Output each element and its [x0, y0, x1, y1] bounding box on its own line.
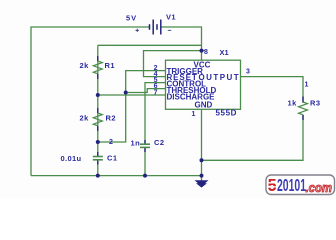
svg-text:7: 7: [154, 89, 158, 96]
svg-text:V1: V1: [166, 13, 176, 22]
svg-text:1k: 1k: [288, 99, 298, 108]
battery V1: [126, 13, 176, 35]
svg-text:555D: 555D: [216, 109, 238, 118]
ground: [195, 180, 209, 187]
svg-text:1: 1: [192, 111, 196, 118]
wire gnd pin down: [201, 109, 203, 180]
capacitor C1: [61, 152, 118, 165]
wire pin2 to node2: [98, 71, 166, 142]
svg-text:5V: 5V: [126, 14, 137, 23]
svg-text:20101: 20101: [277, 175, 306, 195]
svg-text:C2: C2: [154, 138, 164, 147]
svg-text:R3: R3: [310, 99, 320, 108]
svg-text:C1: C1: [107, 154, 117, 163]
wire C1 bottom lead: [97, 160, 99, 175]
svg-text:2k: 2k: [80, 61, 90, 70]
wire top-left loop: [31, 27, 150, 176]
svg-text:R1: R1: [105, 61, 115, 70]
wire pin6 tie: [126, 89, 166, 93]
svg-text:2k: 2k: [80, 113, 90, 122]
wire pin7 row: [98, 94, 166, 96]
svg-text:1n: 1n: [131, 138, 141, 147]
node R3-return: [200, 158, 204, 162]
node R1-R2 junction: [96, 93, 100, 97]
op-amp U1 : 555 timer box X1: [166, 48, 241, 118]
wire R column: [97, 45, 99, 156]
wire vcc rail to R1 top: [98, 44, 202, 46]
svg-text:3: 3: [246, 69, 250, 76]
svg-text:2: 2: [109, 139, 113, 146]
node C1-rail: [96, 174, 100, 178]
svg-text:1: 1: [305, 82, 309, 89]
svg-text:0.01u: 0.01u: [61, 154, 82, 163]
svg-text:8: 8: [204, 49, 208, 56]
resistor R3: [288, 97, 321, 121]
svg-text:X1: X1: [220, 48, 229, 57]
node A junction dots: [96, 49, 204, 178]
svg-text:R2: R2: [106, 113, 116, 122]
wire vcc to pin4 feed: [144, 51, 205, 77]
svg-text:.com: .com: [306, 181, 333, 195]
node C2-rail: [143, 174, 147, 178]
resistor R2: [80, 108, 116, 131]
capacitor C2: [131, 138, 165, 152]
node 2 junction: [96, 140, 100, 144]
wire battery right to vcc node: [161, 27, 202, 60]
node vcc-pin4: [200, 49, 204, 53]
svg-text:GND: GND: [195, 101, 213, 110]
wire C2 bottom lead: [144, 148, 146, 176]
node rail-gnd: [200, 174, 204, 178]
svg-text:5: 5: [268, 175, 277, 195]
logo watermark 520101.com: [266, 175, 335, 195]
node pin2-pin6 tie: [124, 91, 128, 95]
wire pin5 to C2: [145, 83, 166, 144]
wire bottom rail: [31, 175, 202, 177]
resistor R1: [80, 56, 115, 79]
wire output to R3: [241, 77, 304, 103]
wire R3 bottom return: [202, 115, 304, 160]
